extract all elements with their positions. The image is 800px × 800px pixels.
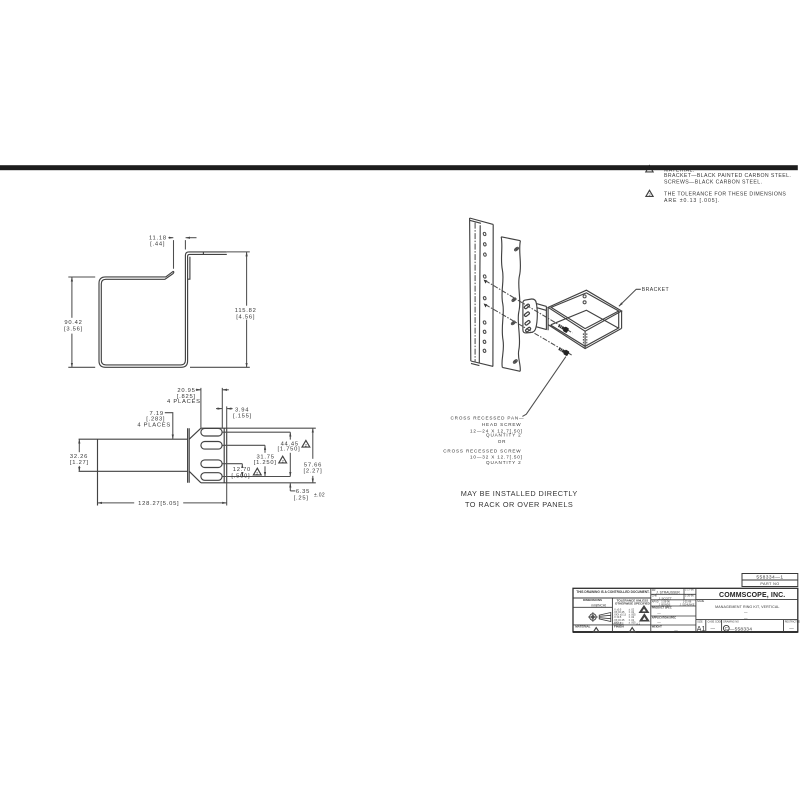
screw 2 xyxy=(558,346,570,356)
svg-text:J. STRAUSSER: J. STRAUSSER xyxy=(656,590,680,594)
svg-text:[1.750]: [1.750] xyxy=(278,447,301,453)
bottom view of bracket xyxy=(70,388,325,507)
svg-text:NAME: NAME xyxy=(697,600,705,603)
black redaction bar xyxy=(0,165,798,170)
svg-text:2: 2 xyxy=(649,193,651,197)
screw axis arrows at rail holes xyxy=(484,280,488,284)
svg-text:—: — xyxy=(744,616,748,620)
svg-text:[.44]: [.44] xyxy=(150,242,165,248)
svg-text:CHK: CHK xyxy=(652,595,658,598)
ring inner profile xyxy=(101,252,227,365)
isometric assembly view xyxy=(470,218,670,416)
svg-text:DRAWING NO: DRAWING NO xyxy=(723,620,739,623)
svg-text:± .005: ± .005 xyxy=(629,621,637,624)
dim 128.27 line xyxy=(226,483,228,506)
ring bottom outer edges xyxy=(548,325,622,349)
flange outline xyxy=(201,428,227,483)
tolerance triangle 2 xyxy=(279,456,287,463)
tab end line xyxy=(188,257,190,279)
svg-text:115.82: 115.82 xyxy=(235,308,257,314)
svg-text:—558334: —558334 xyxy=(730,627,753,633)
bend lines at arm-flange joint xyxy=(188,428,190,483)
bend lines at near corner xyxy=(583,333,586,346)
third angle projection symbol xyxy=(590,614,597,621)
bracket mounting flange plate xyxy=(523,299,537,333)
svg-text:CAGE CODE: CAGE CODE xyxy=(708,620,723,623)
svg-text:DIMENSIONS: DIMENSIONS xyxy=(583,598,602,602)
arm to ring xyxy=(536,304,546,330)
svg-text:J. SCHUNKE: J. SCHUNKE xyxy=(680,603,695,606)
arm outline xyxy=(79,439,188,505)
slot 3 xyxy=(201,460,222,468)
screw 1 xyxy=(557,323,569,333)
svg-text:6.35: 6.35 xyxy=(296,489,310,495)
dim 57.66 extension lines xyxy=(227,428,316,483)
svg-text:ARE ±0.13 [.005].: ARE ±0.13 [.005]. xyxy=(664,198,720,204)
panel holes xyxy=(511,247,519,364)
size row labels xyxy=(697,620,800,623)
svg-text:± 1: ± 1 xyxy=(636,623,640,626)
svg-text:11.18: 11.18 xyxy=(149,235,167,241)
svg-text:MANAGEMENT RING KIT, VERTICAL: MANAGEMENT RING KIT, VERTICAL xyxy=(715,605,779,609)
svg-text:RESTRICTED: RESTRICTED xyxy=(785,620,800,623)
broken-out panel wavy edges xyxy=(501,237,503,368)
svg-text:WEIGHT: WEIGHT xyxy=(652,626,662,629)
screw callout text block xyxy=(443,415,524,465)
slot 1 xyxy=(201,428,222,436)
flange tick xyxy=(202,252,204,255)
screw axis centerline 2 xyxy=(485,305,572,356)
title block grid lines xyxy=(612,588,696,632)
flange slots xyxy=(524,304,531,333)
svg-text:[1.250]: [1.250] xyxy=(254,460,277,466)
svg-text:CROSS RECESSED PAN—: CROSS RECESSED PAN— xyxy=(450,415,524,420)
svg-text:BRACKET—BLACK PAINTED CARBON S: BRACKET—BLACK PAINTED CARBON STEEL. xyxy=(664,173,791,179)
ring corner verticals xyxy=(585,311,622,349)
BRACKET label leader xyxy=(619,289,641,306)
svg-text:THE TOLERANCE FOR THESE DIMENS: THE TOLERANCE FOR THESE DIMENSIONS xyxy=(664,191,786,197)
dim 11.18 arrows xyxy=(168,237,173,239)
svg-text:QUANTITY 2: QUANTITY 2 xyxy=(486,460,521,465)
tolerance warning triangles xyxy=(640,606,649,613)
svg-text:1-17-96: 1-17-96 xyxy=(685,589,694,592)
svg-text:TO RACK OR OVER PANELS: TO RACK OR OVER PANELS xyxy=(465,500,573,509)
dim 90.42 lines with arrows xyxy=(71,277,73,318)
title block xyxy=(573,574,800,633)
svg-text:COMMSCOPE, INC.: COMMSCOPE, INC. xyxy=(719,592,785,599)
dim 32.26 lines with arrows xyxy=(78,439,80,452)
svg-text:CROSS RECESSED SCREW: CROSS RECESSED SCREW xyxy=(443,449,521,454)
note 1 triangle (behind bar) xyxy=(646,166,653,172)
svg-text:±.02: ±.02 xyxy=(314,493,325,499)
tolerance triangle 2 xyxy=(302,440,310,447)
svg-text:[4.56]: [4.56] xyxy=(236,315,255,321)
drawing number xyxy=(723,625,729,631)
svg-text:[1.27]: [1.27] xyxy=(70,460,89,466)
dim 3.94 arrows xyxy=(216,408,222,410)
svg-text:OTHERWISE SPECIFIED: OTHERWISE SPECIFIED xyxy=(615,602,651,606)
part number box xyxy=(742,574,798,587)
dim 115.82 extension lines xyxy=(190,252,250,367)
tolerance triangle 2 xyxy=(253,468,261,475)
svg-text:[.25]: [.25] xyxy=(294,496,309,502)
svg-text:QUANTITY 2: QUANTITY 2 xyxy=(486,433,521,438)
svg-text:—: — xyxy=(657,621,661,625)
svg-text:90.42: 90.42 xyxy=(64,320,82,326)
rack rail angle xyxy=(470,218,494,366)
svg-text:—: — xyxy=(744,611,748,615)
svg-text:—: — xyxy=(789,626,794,631)
chamfer corners xyxy=(189,428,201,483)
svg-text:A1: A1 xyxy=(697,626,706,633)
note 2 triangle xyxy=(646,190,653,196)
leader to lower screw xyxy=(522,357,566,417)
rail holes xyxy=(483,232,487,353)
svg-text:[.155]: [.155] xyxy=(233,413,252,419)
svg-text:FINISH: FINISH xyxy=(614,625,624,629)
dim 12.70 xyxy=(241,464,243,466)
side view of bracket ring xyxy=(64,235,257,367)
ring inner bottom edges seen through opening xyxy=(551,310,619,328)
svg-text:128.27[5.05]: 128.27[5.05] xyxy=(138,501,179,507)
svg-text:SIZE: SIZE xyxy=(697,620,703,623)
title block outer border xyxy=(573,588,798,632)
material notes top right xyxy=(646,166,791,204)
dim 6.35 xyxy=(289,483,291,491)
svg-text:SCREWS—BLACK CARBON STEEL.: SCREWS—BLACK CARBON STEEL. xyxy=(664,180,762,186)
svg-text:4 PLACES: 4 PLACES xyxy=(137,422,171,428)
svg-text:10—32 X 12.7[.50]: 10—32 X 12.7[.50] xyxy=(470,454,523,459)
svg-text:[.500]: [.500] xyxy=(231,473,250,479)
dim 44.45 xyxy=(289,432,291,439)
svg-text:MAY BE INSTALLED DIRECTLY: MAY BE INSTALLED DIRECTLY xyxy=(461,489,578,498)
svg-text:4 PLACES: 4 PLACES xyxy=(167,399,201,405)
svg-text:APPLICATION SPEC: APPLICATION SPEC xyxy=(652,617,676,620)
slot 4 xyxy=(201,473,222,481)
svg-text:THIS DRAWING IS A CONTROLLED D: THIS DRAWING IS A CONTROLLED DOCUMENT. xyxy=(576,590,649,594)
dim 115.82 lines with arrows xyxy=(246,252,248,306)
svg-text:[3.56]: [3.56] xyxy=(64,326,83,332)
svg-text:BRACKET: BRACKET xyxy=(642,287,670,293)
svg-text:1-26-96: 1-26-96 xyxy=(685,594,694,597)
svg-text:HEAD SCREW: HEAD SCREW xyxy=(482,422,522,427)
svg-text:—: — xyxy=(657,611,661,615)
svg-text:mm[INCH]: mm[INCH] xyxy=(591,603,606,607)
svg-text:MATERIAL: MATERIAL xyxy=(575,625,590,629)
ring outer profile xyxy=(99,254,227,367)
drawn/checked/approved rows xyxy=(652,589,695,632)
svg-text:PART NO: PART NO xyxy=(760,582,779,586)
svg-text:12.70: 12.70 xyxy=(233,467,251,473)
dim 31.75 xyxy=(264,445,266,453)
tolerance table xyxy=(613,608,640,625)
ring outer rim xyxy=(548,290,622,331)
lip end cap xyxy=(173,271,174,274)
dim 90.42 extension lines xyxy=(68,277,95,367)
svg-text:DR: DR xyxy=(652,589,656,592)
dim 20.95 arrows xyxy=(196,389,201,391)
slot 2 xyxy=(201,442,222,450)
svg-text:558334—1: 558334—1 xyxy=(756,574,783,580)
dim 11.18 extension lines xyxy=(174,240,186,269)
dim 20.95 extension lines xyxy=(201,388,222,428)
dim 7.19 leader xyxy=(165,413,173,439)
rail centerline xyxy=(474,223,476,363)
svg-text:[2.27]: [2.27] xyxy=(303,468,322,474)
installation note xyxy=(461,489,578,509)
ring inner rim xyxy=(551,293,619,329)
svg-text:—: — xyxy=(674,628,678,632)
arm bend lines xyxy=(546,306,548,330)
svg-text:OR: OR xyxy=(498,439,507,444)
screw axis centerline 1 xyxy=(485,281,572,333)
holes on far wall xyxy=(583,295,586,298)
svg-text:PRODUCT SPEC: PRODUCT SPEC xyxy=(652,607,672,610)
ring bottom thickness lines xyxy=(550,325,619,346)
svg-text:—: — xyxy=(711,626,716,631)
slot center leader lines xyxy=(222,432,290,476)
